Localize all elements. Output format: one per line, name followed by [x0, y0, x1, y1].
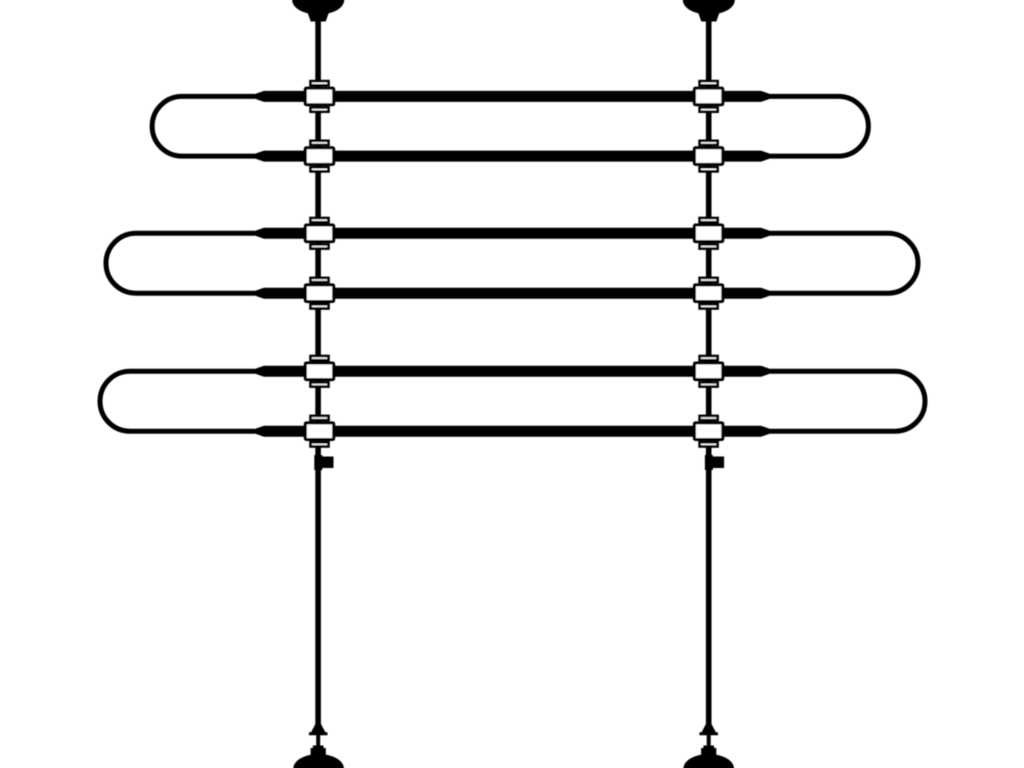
loop 2 top bar — [256, 228, 769, 239]
right top neck — [698, 13, 719, 22]
left foot ball — [293, 754, 344, 768]
right pole — [706, 12, 712, 735]
left top neck — [308, 13, 329, 22]
loop 1 bottom bar — [256, 151, 769, 162]
clamp R4 (right pole, bar 4) — [694, 278, 722, 309]
clamp L2 (left pole, bar 2) — [305, 141, 333, 172]
left foot arrowhead — [309, 723, 328, 736]
right foot ball — [683, 754, 734, 768]
right foot cap — [701, 746, 716, 756]
clamp R2 (right pole, bar 2) — [694, 141, 722, 172]
loop 3 top bar — [256, 366, 769, 377]
clamp R1 (right pole, bar 1) — [694, 81, 722, 112]
clamp L1 (left pole, bar 1) — [305, 81, 333, 112]
clamp L5 (left pole, bar 5) — [305, 356, 333, 387]
clamp L4 (left pole, bar 4) — [305, 278, 333, 309]
loop 1 tube outline — [152, 96, 868, 156]
left top ball — [292, 0, 344, 15]
loop 1 top bar — [256, 91, 769, 102]
right top ball — [683, 0, 735, 15]
left foot cap — [311, 746, 326, 756]
clamp R3 (right pole, bar 3) — [694, 218, 722, 249]
loop 2 tube outline — [106, 233, 918, 293]
clamp R6 (right pole, bar 6) — [694, 416, 722, 447]
left foot stem — [316, 734, 320, 747]
loop 3 tube outline — [100, 371, 925, 431]
clamp L3 (left pole, bar 3) — [305, 218, 333, 249]
clamp L6 (left pole, bar 6) — [305, 416, 333, 447]
right foot arrowhead — [699, 723, 718, 736]
loop 3 bottom bar — [256, 426, 769, 437]
right tension knob — [705, 455, 724, 470]
clamp R5 (right pole, bar 5) — [694, 356, 722, 387]
loop 2 bottom bar — [256, 288, 769, 299]
right foot stem — [707, 734, 711, 747]
left tension knob — [314, 455, 333, 470]
left pole — [315, 12, 321, 735]
